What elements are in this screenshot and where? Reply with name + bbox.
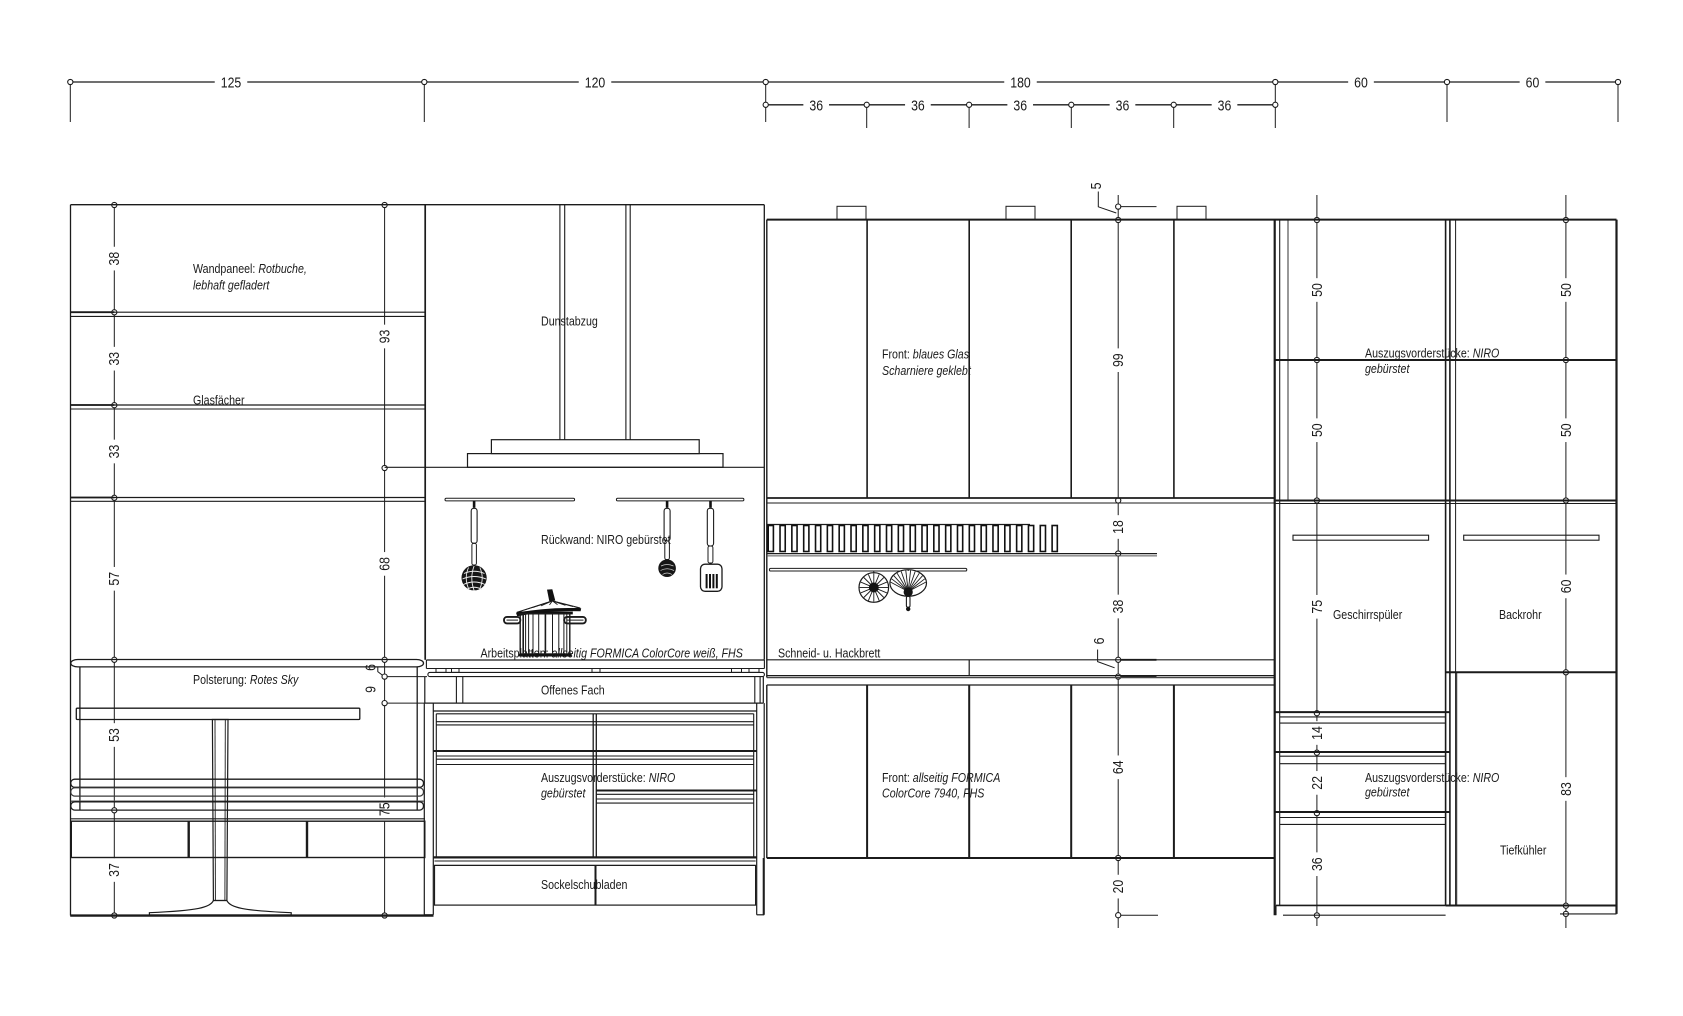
drawer 22 bottom <box>1275 811 1450 813</box>
svg-text:14: 14 <box>1309 726 1325 740</box>
glass shelf 2 <box>71 404 426 406</box>
svg-text:Schneid- u. Hackbrett: Schneid- u. Hackbrett <box>778 645 881 660</box>
hanging whisk round <box>859 573 889 603</box>
glass shelf 3 <box>71 497 426 499</box>
vertical dimension line B x=385 (93/68/6/9/75) <box>384 205 386 325</box>
svg-text:5: 5 <box>1088 182 1104 189</box>
island drawer box sides <box>435 714 437 858</box>
hood canopy upper tier <box>491 440 699 454</box>
svg-text:Offenes Fach: Offenes Fach <box>541 683 605 698</box>
island left side panel <box>423 703 425 915</box>
bench left side panel <box>79 667 81 810</box>
svg-text:36: 36 <box>1013 97 1027 113</box>
upper cabinet door divider 1 <box>866 220 868 498</box>
markers on dimension line B <box>382 202 387 207</box>
markers on dimension line C <box>1116 204 1121 209</box>
table top <box>76 708 360 719</box>
right base left edge <box>766 685 768 858</box>
svg-text:36: 36 <box>1309 857 1325 871</box>
tick at y=703.1 from line B to open shelf bottom <box>385 702 425 704</box>
markers on main dimension chain <box>68 79 73 84</box>
svg-text:22: 22 <box>1309 776 1325 790</box>
svg-text:68: 68 <box>376 557 392 571</box>
svg-text:33: 33 <box>106 444 122 458</box>
island right column extra drawer split <box>596 790 756 792</box>
backwall bottom line <box>385 466 765 468</box>
hood section right wall <box>763 205 765 660</box>
svg-text:50: 50 <box>1309 423 1325 437</box>
island drawer horizontal lines <box>436 713 753 715</box>
counter top level line across right section <box>767 659 1276 661</box>
counter spacer blocks <box>436 669 446 673</box>
hanging ladle 1 hook and handle <box>473 501 476 508</box>
svg-text:93: 93 <box>376 329 392 343</box>
tall unit left edge <box>1274 220 1276 916</box>
table pedestal base flare <box>149 901 291 916</box>
svg-text:gebürstet: gebürstet <box>1365 784 1410 799</box>
bench seat base rail <box>71 802 424 810</box>
svg-text:Rückwand: NIRO gebürstet: Rückwand: NIRO gebürstet <box>541 532 671 547</box>
pot lid rim band <box>516 608 581 616</box>
svg-text:Auszugsvorderstücke: NIRO: Auszugsvorderstücke: NIRO <box>541 770 675 785</box>
hood section left wall <box>424 205 426 660</box>
hanging ladle 1 mesh ball <box>462 565 487 590</box>
svg-text:38: 38 <box>106 251 122 265</box>
tall unit middle divider <box>1445 220 1447 906</box>
hinge bump 3 <box>1177 206 1206 219</box>
island sockel drawers <box>435 865 756 905</box>
svg-text:99: 99 <box>1110 353 1126 367</box>
svg-text:75: 75 <box>376 802 392 816</box>
upper cabinet door divider 4 <box>1173 220 1175 498</box>
markers on dimension line E <box>1563 217 1568 222</box>
svg-text:50: 50 <box>1558 423 1574 437</box>
hanging spatula blade with slots <box>701 564 723 591</box>
svg-text:ColorCore 7940, FHS: ColorCore 7940, FHS <box>882 785 984 800</box>
oven bottom line <box>1446 671 1617 673</box>
bench top cushion slab <box>71 660 424 667</box>
utensil rail left <box>445 498 575 501</box>
svg-text:64: 64 <box>1110 760 1126 774</box>
svg-text:83: 83 <box>1558 782 1574 796</box>
right base door divider 1 <box>866 685 868 858</box>
right base door divider 4 <box>1173 685 1175 858</box>
wall panel top line (also hood section top) <box>71 204 765 206</box>
tall unit right edge <box>1615 220 1617 914</box>
hanging ladle 2 hook and handle <box>666 501 669 508</box>
svg-text:Dunstabzug: Dunstabzug <box>541 314 598 329</box>
open shelf bottom line <box>425 702 764 704</box>
cutting board right edge <box>968 660 970 676</box>
svg-text:Glasfächer: Glasfächer <box>193 392 245 407</box>
svg-text:9: 9 <box>362 686 378 693</box>
pot lid knob <box>547 589 555 601</box>
right base door divider 3 <box>1070 685 1072 858</box>
oven handle <box>1464 535 1599 540</box>
open shelf compartment <box>424 677 426 704</box>
right base door divider 2 <box>968 685 970 858</box>
svg-text:Tiefkühler: Tiefkühler <box>1500 843 1546 858</box>
wall panel left edge <box>70 205 72 916</box>
svg-text:180: 180 <box>1010 74 1031 90</box>
svg-text:lebhaft gefladert: lebhaft gefladert <box>193 277 270 292</box>
tick at y=206.6 right of line C <box>1118 206 1156 208</box>
svg-text:75: 75 <box>1309 600 1325 614</box>
extension lines below top dimension markers <box>69 82 71 122</box>
drawer 14 bottom <box>1275 751 1450 753</box>
svg-text:57: 57 <box>106 572 122 586</box>
pot body with ribs <box>520 614 570 654</box>
bench seat cushion upper <box>71 779 424 787</box>
svg-text:Auszugsvorderstücke: NIRO: Auszugsvorderstücke: NIRO <box>1365 346 1499 361</box>
hinge bump 2 <box>1006 206 1035 219</box>
glass shelf 1 <box>71 311 426 313</box>
dishwasher door bottom <box>1275 711 1450 713</box>
under-bench drawer divider 1 <box>187 821 189 857</box>
pot lid cone with radial lines <box>517 601 580 613</box>
tick at floor level right of line C <box>1118 914 1158 916</box>
pot left handle <box>504 617 520 624</box>
bench seat cushion middle <box>71 788 424 796</box>
upper cabinets left edge <box>766 220 768 678</box>
hinge bump 1 <box>837 206 866 219</box>
svg-text:Scharniere geklebt: Scharniere geklebt <box>882 363 971 378</box>
svg-text:Polsterung: Rotes Sky: Polsterung: Rotes Sky <box>193 672 299 687</box>
markers on sub dimension chain <box>864 102 869 107</box>
svg-text:Front: blaues Glas: Front: blaues Glas <box>882 346 969 361</box>
svg-text:60: 60 <box>1354 74 1368 90</box>
dishwasher handle <box>1293 535 1429 540</box>
bench right side panel <box>416 667 418 810</box>
island counter slab <box>426 659 764 661</box>
svg-text:36: 36 <box>809 97 823 113</box>
island drawers bottom line <box>433 856 756 858</box>
svg-text:Wandpaneel: Rotbuche,: Wandpaneel: Rotbuche, <box>193 261 307 276</box>
freezer door edge <box>1456 672 1458 905</box>
markers on dimension line D <box>1314 217 1319 222</box>
upper cabinet door divider 2 <box>968 220 970 498</box>
tick at y=659.8 right of line C <box>1118 659 1156 661</box>
freezer bottom line <box>1446 905 1617 907</box>
tall unit split 50/50 <box>1275 359 1617 361</box>
utensil rail right <box>616 498 744 501</box>
hood duct left pair <box>559 205 561 440</box>
upper cabinets bottom line <box>767 497 1276 499</box>
right base left edge below doors <box>762 858 764 915</box>
svg-text:50: 50 <box>1558 283 1574 297</box>
svg-text:33: 33 <box>106 352 122 366</box>
svg-text:gebürstet: gebürstet <box>541 785 586 800</box>
hanging spatula hook and handle <box>709 501 712 508</box>
upper cabinet top line 180 section and tall units <box>767 219 1617 221</box>
table pedestal column <box>212 720 228 901</box>
utensil rail (right section) <box>769 568 966 571</box>
island right side panel <box>756 703 758 915</box>
upper cabinet door divider 3 <box>1070 220 1072 498</box>
bench frame rail line <box>71 800 424 802</box>
under-bench top line <box>71 818 425 820</box>
svg-text:20: 20 <box>1110 879 1126 893</box>
hanging ladle 2 ball <box>658 559 676 577</box>
svg-text:Geschirrspüler: Geschirrspüler <box>1333 607 1402 622</box>
dimension chain main line y=82 with gaps for labels <box>70 81 214 83</box>
right counter top lines <box>767 675 1276 677</box>
wall panel right edge <box>424 205 426 660</box>
knife block shelf line <box>767 553 1157 555</box>
strainer handle stem <box>906 596 910 607</box>
under-bench drawer row <box>71 821 425 857</box>
svg-text:50: 50 <box>1309 283 1325 297</box>
island cabinet top line <box>433 710 756 712</box>
vertical dimension line E x=1566 (50/50/60/83) <box>1565 195 1567 220</box>
svg-text:53: 53 <box>106 728 122 742</box>
knife block top line <box>767 524 1030 526</box>
island drawer center divider <box>592 714 594 858</box>
hood canopy lower tier <box>468 454 724 468</box>
svg-text:Backrohr: Backrohr <box>1499 607 1542 622</box>
svg-text:Front: allseitig FORMICA: Front: allseitig FORMICA <box>882 770 1000 785</box>
right base doors bottom line <box>767 857 1276 859</box>
svg-text:Sockelschubladen: Sockelschubladen <box>541 877 627 892</box>
vertical dimension line A x=114 (38/33/33/57/53/37) <box>113 205 115 247</box>
svg-text:18: 18 <box>1110 520 1126 534</box>
svg-text:36: 36 <box>911 97 925 113</box>
svg-text:60: 60 <box>1558 579 1574 593</box>
vertical dimension line C x=1118 (5/99/18/38/6/64/20) <box>1117 195 1119 207</box>
knife block slats <box>768 526 773 552</box>
svg-text:60: 60 <box>1526 74 1540 90</box>
svg-text:37: 37 <box>106 863 122 877</box>
markers on dimension line A <box>112 202 117 207</box>
svg-text:6: 6 <box>1091 637 1107 644</box>
tall left column bottom <box>1276 904 1446 906</box>
pot bottom band <box>518 654 571 657</box>
pot right handle <box>564 617 586 624</box>
hanging strainer oval <box>890 570 927 597</box>
dimension chain sub line y=105 with gaps for 36 labels <box>766 104 804 106</box>
freezer sockel line <box>1560 913 1617 915</box>
pot rim band <box>517 612 572 615</box>
tall unit split below drawers <box>1275 500 1617 502</box>
svg-text:Auszugsvorderstücke: NIRO: Auszugsvorderstücke: NIRO <box>1365 770 1499 785</box>
counter shelf board <box>428 672 765 676</box>
tick at y=676.6 right of line C <box>1118 676 1156 678</box>
svg-text:38: 38 <box>1110 599 1126 613</box>
svg-text:Arbeitsplatten: allseitig FORM: Arbeitsplatten: allseitig FORMICA ColorC… <box>481 645 743 660</box>
vertical dimension line D x=1317 (50/50/75/14/22/36) <box>1316 195 1318 220</box>
island sockel slab <box>435 860 756 862</box>
tall left column sockel line <box>1283 914 1446 916</box>
svg-text:125: 125 <box>221 74 242 90</box>
hood duct right pair <box>625 205 627 440</box>
svg-text:36: 36 <box>1116 97 1130 113</box>
right base cabinet top line <box>767 684 1276 686</box>
svg-text:120: 120 <box>585 74 606 90</box>
tick at y=676.6 from line B to counter shelf <box>385 676 427 678</box>
svg-text:36: 36 <box>1218 97 1232 113</box>
floor line under left section <box>70 914 433 916</box>
svg-text:gebürstet: gebürstet <box>1365 361 1410 376</box>
under-bench drawer divider 2 <box>306 821 308 857</box>
